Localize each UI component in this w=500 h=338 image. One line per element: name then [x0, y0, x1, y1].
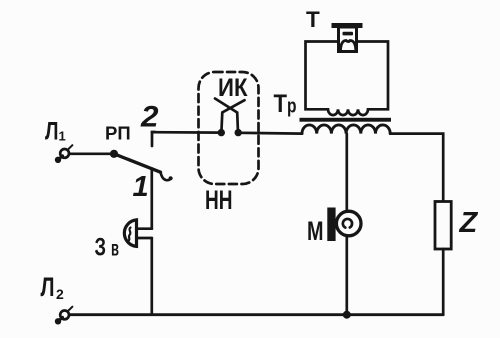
impedance Z box: [435, 202, 451, 250]
svg-text:Z: Z: [459, 207, 479, 239]
microphone M circle: [336, 211, 361, 236]
svg-text:Л: Л: [45, 118, 59, 146]
microphone inner ring: [343, 219, 352, 228]
contact ИК right terminal: [235, 129, 242, 136]
telephone receiver cap bar: [332, 23, 363, 28]
bell Зв top lead: [137, 227, 152, 230]
microphone M bar: [327, 208, 335, 242]
node РП junction: [110, 150, 118, 158]
svg-text:2: 2: [56, 286, 64, 302]
contact ИК crossed springs: [222, 100, 245, 130]
transformer Тр core: [300, 118, 392, 122]
svg-text:1: 1: [59, 129, 66, 144]
bottom wire: [69, 313, 443, 316]
wire 2 to ИК: [152, 131, 221, 134]
svg-text:в: в: [111, 238, 119, 261]
svg-text:Т: Т: [306, 7, 320, 32]
bell Зв body: [124, 220, 136, 247]
telephone T box with primary winding in bottom edge: [306, 42, 389, 116]
terminal Л1: [55, 145, 73, 163]
svg-text:2: 2: [140, 101, 159, 134]
label Зв: [95, 234, 120, 262]
label Тр: [274, 90, 297, 118]
svg-text:РП: РП: [105, 123, 131, 144]
wire switch to bell: [150, 169, 153, 229]
svg-text:Л: Л: [41, 272, 55, 302]
wire ИК to Тр: [238, 131, 302, 135]
contact ИК left terminal: [218, 129, 225, 136]
switch blade hook: [161, 172, 171, 180]
wire Л1 to РП: [69, 152, 114, 155]
wire transformer tap to M and down: [345, 134, 348, 315]
receiver magnet dash: [343, 32, 354, 36]
svg-text:ИК: ИК: [218, 74, 248, 102]
svg-text:З: З: [95, 234, 107, 262]
wire Z to bottom: [442, 249, 445, 315]
contact 2 stub: [152, 132, 155, 146]
terminal Л2: [55, 307, 73, 325]
wire Тр right lead to Z: [390, 134, 443, 202]
dashed enclosure НН: [199, 72, 259, 184]
label Л1: [45, 118, 66, 146]
svg-text:НН: НН: [205, 185, 233, 215]
junction dot bottom of M: [343, 311, 351, 319]
bell clapper squiggle: [129, 228, 131, 241]
label Л2: [41, 272, 65, 302]
svg-text:р: р: [287, 96, 297, 118]
svg-text:1: 1: [133, 171, 149, 203]
bell Зв bottom lead: [137, 237, 152, 240]
telephone receiver body: [339, 27, 357, 52]
receiver diaphragm dome: [341, 40, 356, 51]
transformer secondary winding: [302, 125, 390, 134]
svg-text:Т: Т: [274, 90, 288, 118]
wire bell to bottom: [150, 238, 153, 315]
switch РП blade: [114, 154, 161, 172]
svg-text:М: М: [307, 216, 324, 246]
